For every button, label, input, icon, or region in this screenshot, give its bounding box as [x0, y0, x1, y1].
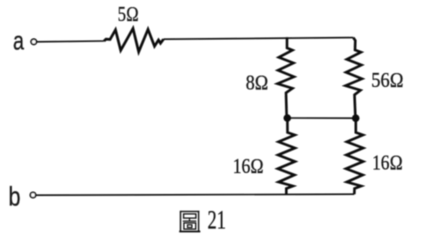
node junction right (dot) [352, 114, 360, 122]
svg-text:16Ω: 16Ω [233, 154, 264, 178]
terminal b (open circle) [30, 192, 35, 197]
wire: terminal a to resistor R1 [37, 40, 104, 43]
svg-text:21: 21 [208, 205, 227, 234]
wire: middle connecting junctions [287, 117, 355, 119]
svg-text:b: b [9, 182, 21, 212]
resistor R2 8Ω (vertical zigzag, top lead from top wire) [278, 37, 295, 115]
svg-text:5Ω: 5Ω [118, 2, 139, 26]
svg-text:16Ω: 16Ω [372, 151, 403, 175]
svg-text:a: a [13, 26, 24, 56]
terminal a (open circle) [31, 39, 36, 44]
resistor R4 16Ω (vertical zigzag, bottom left) [278, 121, 295, 194]
svg-text:56Ω: 56Ω [371, 68, 404, 92]
wire: terminal b to bottom-right corner [36, 194, 354, 195]
node junction left (dot) [284, 114, 292, 122]
wire: resistor R1 to top-right corner [164, 38, 354, 40]
resistor R1 5Ω (horizontal zigzag) [104, 29, 164, 52]
svg-text:8Ω: 8Ω [246, 71, 269, 95]
resistor R5 16Ω (vertical zigzag, bottom right) [346, 121, 363, 194]
resistor R3 56Ω (vertical zigzag, right top) [346, 38, 363, 115]
caption glyph 圖 (drawn strokes) [179, 211, 200, 232]
